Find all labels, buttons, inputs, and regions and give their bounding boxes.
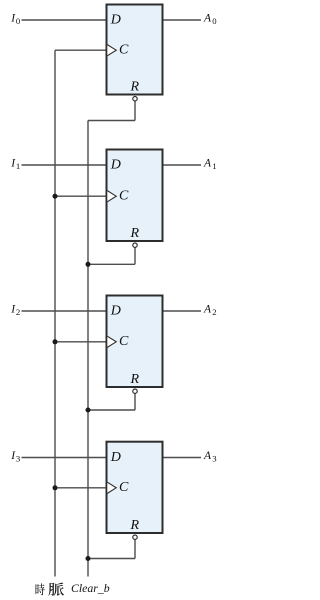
svg-text:D: D (110, 158, 121, 173)
svg-text:2: 2 (16, 307, 20, 317)
svg-text:D: D (110, 304, 121, 319)
svg-text:C: C (119, 334, 129, 349)
svg-text:A: A (203, 13, 212, 25)
svg-text:0: 0 (16, 16, 21, 26)
svg-text:C: C (119, 43, 129, 58)
svg-text:R: R (130, 80, 140, 95)
svg-text:1: 1 (16, 161, 20, 171)
svg-text:R: R (130, 518, 140, 533)
svg-text:1: 1 (212, 161, 216, 171)
svg-text:R: R (130, 226, 140, 241)
svg-text:A: A (203, 450, 212, 462)
svg-text:3: 3 (16, 454, 20, 464)
svg-text:D: D (110, 450, 121, 465)
svg-text:C: C (119, 189, 129, 204)
svg-text:A: A (203, 158, 212, 170)
svg-text:0: 0 (212, 16, 217, 26)
svg-text:R: R (130, 372, 140, 387)
svg-text:D: D (110, 13, 121, 28)
svg-text:A: A (203, 304, 212, 316)
svg-text:2: 2 (212, 307, 216, 317)
svg-text:Clear_b: Clear_b (71, 581, 110, 595)
svg-text:3: 3 (212, 454, 216, 464)
svg-text:C: C (119, 480, 129, 495)
